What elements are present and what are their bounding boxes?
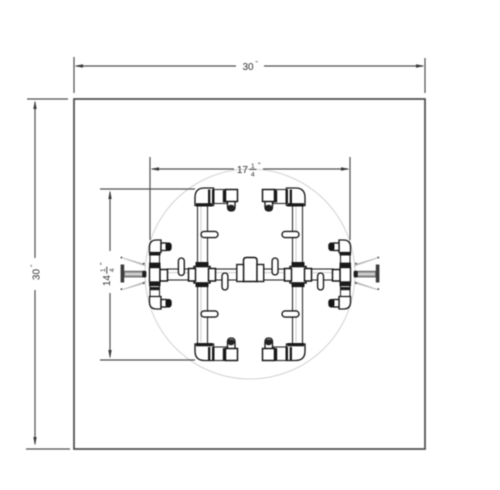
dimension 30in left: extension lines [26, 99, 70, 449]
dimension 30in top: dimension line [76, 65, 423, 67]
gas inlet symbol right: shaft [355, 271, 376, 277]
cross fitting left: top collar [196, 262, 209, 267]
gas inlet symbol left: tip dots [121, 257, 123, 259]
dimension 30in left: arrowheads [33, 101, 36, 110]
svg-text:": " [258, 163, 261, 170]
left end coupling bands [149, 252, 161, 256]
dimension 30in left: text (rotated) [30, 264, 43, 280]
dimension 30in left: dimension line [34, 102, 36, 444]
svg-text:17: 17 [237, 165, 249, 176]
nozzle top-left (down) [228, 196, 236, 211]
cross fitting right: bottom collar [292, 282, 305, 287]
svg-text:": " [100, 262, 107, 265]
svg-text:4: 4 [251, 172, 255, 179]
svg-text:": " [256, 60, 259, 67]
nozzle top-right (down) [265, 196, 273, 211]
bottom-right horizontal nipple [273, 347, 288, 361]
cross fitting right: east socket [305, 269, 312, 282]
end nozzle right-top [334, 243, 340, 251]
orifice capsule main pipe down-left [222, 273, 228, 290]
elbow top-right [287, 188, 306, 206]
main burner pipe (horizontal) [167, 269, 333, 280]
right end tee body [340, 268, 351, 283]
cross fitting left: bottom collar [196, 282, 209, 287]
end elbow right-bottom [339, 297, 351, 310]
dimension 30in top: arrowheads [75, 64, 84, 67]
center tee east socket [257, 265, 264, 282]
center tee body [244, 258, 258, 282]
cross fitting right: top collar [292, 262, 305, 267]
left end riser pipe [150, 253, 160, 298]
left vertical pipe shading [200, 206, 202, 342]
dimension 14 1/4in: text (rotated, stacked fraction) [100, 262, 116, 286]
cross fitting left: east socket [209, 269, 216, 282]
elbow bottom-left [195, 344, 214, 361]
nozzle bottom-right (up) [265, 338, 273, 353]
right end coupling bands [340, 252, 352, 256]
left end tee top band [149, 263, 161, 267]
svg-text:4: 4 [109, 268, 116, 272]
svg-text:30: 30 [31, 269, 42, 281]
gas inlet symbol left: shaft tip [142, 271, 146, 278]
gas inlet symbol right: shaft tip [354, 271, 358, 278]
left vertical pipe upper segment [198, 205, 208, 263]
center tee west socket [237, 265, 244, 282]
right end tee west socket [333, 270, 341, 282]
left end tee east socket [160, 270, 168, 282]
right vertical pipe shading [295, 206, 297, 342]
gas inlet symbol left: rays [123, 258, 146, 290]
orifice capsule left pipe upper [201, 231, 218, 237]
right end tee top band [340, 263, 352, 267]
svg-text:1: 1 [100, 268, 107, 272]
bottom-left horizontal nipple [212, 347, 227, 361]
right vertical pipe upper segment [293, 205, 303, 263]
street elbow cap top-left [226, 190, 238, 202]
collar above elbow bottom-left [196, 343, 213, 346]
orifice capsule main pipe up-right [272, 258, 278, 275]
right end riser pipe [341, 253, 351, 298]
dimension 14 1/4in: extension lines [100, 189, 195, 360]
collar above elbow bottom-right [288, 343, 305, 346]
orifice capsule main pipe down-right [318, 273, 324, 290]
orifice capsule left pipe lower [201, 311, 218, 317]
gas inlet symbol left: shaft [124, 271, 145, 277]
dimension 17 1/4in: extension lines [150, 157, 350, 240]
coupling top-left run [208, 190, 210, 204]
gas inlet symbol right: tip dots [377, 257, 379, 259]
pan circle [145, 169, 355, 379]
top-right horizontal nipple [273, 190, 288, 204]
coupling top-right run [290, 190, 292, 204]
end nozzle left-top [161, 243, 167, 251]
coupling bottom-left run [208, 347, 210, 361]
dimension 17 1/4in: arrowheads [151, 167, 160, 170]
orifice capsule right pipe upper [282, 231, 299, 237]
end elbow left-bottom [150, 297, 162, 310]
left end tee bottom band [149, 282, 161, 286]
elbow bottom-right [287, 344, 306, 361]
svg-text:14: 14 [102, 275, 113, 287]
svg-text:30: 30 [242, 62, 254, 73]
svg-text:1: 1 [251, 163, 255, 170]
elbow top-left [195, 188, 214, 206]
street elbow cap top-right [263, 190, 275, 202]
svg-text:": " [30, 264, 37, 267]
end elbow right-top [339, 240, 351, 253]
orifice capsule main pipe up-left [178, 258, 184, 276]
dimension 14 1/4in: arrowheads [108, 191, 111, 200]
cross fitting left: body [194, 267, 210, 284]
dimension 30in top: extension lines [74, 57, 425, 93]
right vertical pipe lower segment [293, 286, 303, 344]
street elbow cap bottom-right [263, 349, 275, 361]
orifice capsule right pipe lower [282, 311, 299, 317]
left end tee body [150, 268, 161, 283]
main pipe shading line [168, 272, 332, 274]
gas inlet symbol left: T-bar [121, 265, 125, 283]
collar below elbow top-left [196, 203, 213, 206]
cross fitting right: body [290, 267, 306, 284]
street elbow cap bottom-left [226, 349, 238, 361]
gas inlet symbol right: T-bar [376, 265, 380, 283]
dimension 17 1/4in: dimension line [152, 168, 348, 170]
coupling bottom-right run [290, 347, 292, 361]
right end tee bottom band [340, 282, 352, 286]
end nozzle right-bottom [334, 300, 340, 308]
outer square (30x30 enclosure) [74, 99, 425, 449]
top-left horizontal nipple [212, 190, 227, 204]
cross fitting left: west socket [189, 269, 196, 282]
nozzle bottom-left (up) [228, 338, 236, 353]
collar below elbow top-right [288, 203, 305, 206]
end nozzle left-bottom [161, 300, 167, 308]
dimension 17 1/4in: text with stacked fraction [237, 163, 261, 179]
left vertical pipe lower segment [198, 286, 208, 344]
dimension 14 1/4in: dimension line [109, 192, 111, 357]
gas inlet symbol right: rays [354, 258, 377, 290]
cross fitting right: west socket [285, 269, 292, 282]
end elbow left-top [150, 240, 162, 253]
